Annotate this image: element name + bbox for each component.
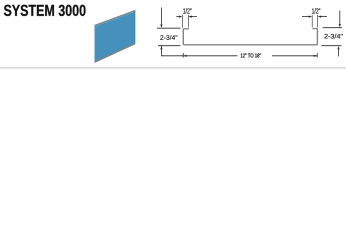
dim 12 to 18 left ext tick xyxy=(182,53,184,58)
dim left 2-3/4 down arrow xyxy=(160,8,162,25)
dim 12 to 18 right arrow xyxy=(314,55,317,57)
bottom rule xyxy=(0,67,346,69)
dim left 1/2 right arrow xyxy=(191,16,197,18)
dim left 2-3/4 bottom extension line xyxy=(158,45,180,47)
dim 12 to 18 line left segment xyxy=(183,55,237,57)
dim right 1/2 right arrow xyxy=(320,16,327,18)
profile pan section xyxy=(183,29,317,45)
dim right 1/2 inch label xyxy=(312,8,320,13)
dim right 2-3/4 bottom extension line xyxy=(321,45,341,47)
panel left edge xyxy=(94,26,96,62)
dim left 2-3/4 top extension line xyxy=(157,27,180,29)
dim 12 to 18 line right segment xyxy=(272,55,317,57)
dim left 2-3/4 inch label xyxy=(160,35,177,40)
dim 12 to 18 left arrow xyxy=(183,55,186,57)
dim right 2-3/4 top extension line xyxy=(323,27,342,29)
panel top edge xyxy=(95,11,136,26)
panel 3d face xyxy=(95,11,136,63)
dim right 1/2 left arrow xyxy=(302,16,310,18)
panel top bevel highlight xyxy=(95,11,135,26)
title SYSTEM 3000 xyxy=(4,5,86,16)
dim 12 to 18 right ext tick xyxy=(316,53,318,58)
dim right 1/2 extension lines xyxy=(311,15,313,28)
dim left 1/2 inch label xyxy=(183,8,191,13)
dim 12 to 18 inch label xyxy=(241,53,261,57)
dim right 2-3/4 up arrow xyxy=(338,50,340,57)
panel bottom edge xyxy=(95,44,136,63)
dim left 1/2 extension lines xyxy=(181,15,183,28)
dim left 1/2 left arrow xyxy=(176,16,180,18)
dim left 2-3/4 up arrow with leader xyxy=(161,46,183,56)
panel right edge xyxy=(134,11,136,44)
dim right 2-3/4 inch label xyxy=(324,34,342,39)
dim right 2-3/4 down arrow xyxy=(339,11,341,25)
